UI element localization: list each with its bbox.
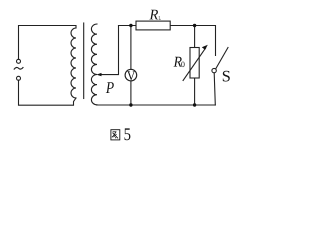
junction dot voltmeter top <box>129 24 132 27</box>
tap arrow head <box>96 73 101 76</box>
wire switch branch bottom <box>214 73 215 105</box>
caption number 5 <box>125 128 131 140</box>
label RL subscript L <box>159 16 161 20</box>
wire top-left loop <box>19 26 77 60</box>
wire top rail left segment <box>119 25 137 27</box>
wire R0 branch top <box>194 26 196 48</box>
voltmeter letter V <box>127 71 135 80</box>
wire top rail right segment <box>170 26 215 56</box>
switch S lever <box>216 48 228 69</box>
junction dot R0 bottom <box>193 103 196 106</box>
transformer core <box>83 23 85 99</box>
resistor RL box <box>136 21 170 30</box>
wire bottom rail <box>97 104 216 106</box>
label R0 letter R <box>174 57 182 67</box>
wire voltmeter branch top <box>130 26 132 70</box>
caption glyph tu (figure) <box>111 130 120 140</box>
AC source terminal circle 2 <box>17 76 21 80</box>
AC source tilde symbol <box>14 67 23 69</box>
rheostat arrow head <box>202 45 208 50</box>
wire tap P leg <box>100 26 119 75</box>
wire bottom-left loop <box>19 80 77 105</box>
wire voltmeter branch bottom <box>130 81 132 105</box>
label S <box>223 71 230 82</box>
transformer secondary coil <box>91 24 97 105</box>
voltmeter circle <box>125 69 137 81</box>
rheostat R0 box <box>190 48 199 79</box>
switch S pivot circle <box>212 68 216 72</box>
label R0 subscript 0 <box>181 62 184 68</box>
transformer primary coil <box>71 28 76 98</box>
junction dot R0 top <box>193 24 196 27</box>
rheostat R0 arrow shaft <box>183 48 206 81</box>
AC source terminal circle 1 <box>17 59 21 63</box>
label P <box>106 82 114 93</box>
junction dot voltmeter bottom <box>129 103 132 106</box>
label RL letter R <box>149 10 158 20</box>
wire R0 branch bottom <box>194 78 196 105</box>
